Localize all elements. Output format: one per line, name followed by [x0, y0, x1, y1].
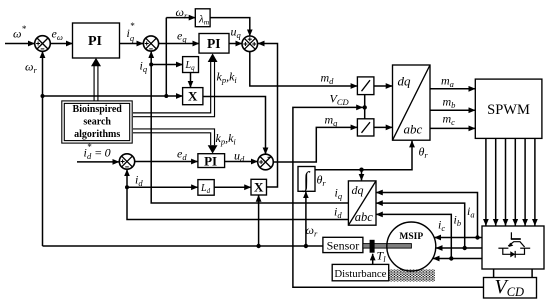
svg-text:eω: eω: [52, 27, 63, 43]
svg-text:ωr: ωr: [176, 5, 188, 21]
svg-text:mc: mc: [443, 112, 456, 128]
svg-text:ma: ma: [441, 74, 454, 90]
svg-text:∫: ∫: [301, 168, 310, 193]
svg-text:ed: ed: [177, 147, 187, 163]
svg-text:Sensor: Sensor: [327, 239, 360, 253]
svg-text:ic: ic: [438, 218, 445, 234]
svg-text:Tl: Tl: [377, 249, 387, 265]
svg-text:Bioinspired: Bioinspired: [73, 104, 123, 115]
svg-text:Disturbance: Disturbance: [334, 268, 386, 280]
svg-text:dq: dq: [398, 74, 412, 89]
svg-text:PI: PI: [88, 34, 102, 49]
svg-text:mq: mq: [325, 113, 339, 129]
svg-text:mb: mb: [443, 95, 456, 111]
svg-text:i*q: i*q: [127, 21, 135, 43]
svg-text:PI: PI: [204, 154, 217, 169]
svg-text:id: id: [135, 173, 143, 189]
svg-text:PI: PI: [207, 36, 221, 51]
svg-text:X: X: [254, 179, 264, 194]
svg-text:ωr: ωr: [25, 60, 37, 76]
svg-text:iq: iq: [335, 186, 343, 202]
svg-text:θr: θr: [419, 145, 429, 161]
svg-text:ia: ia: [467, 204, 475, 220]
svg-text:MSIP: MSIP: [399, 232, 423, 242]
svg-text:search: search: [83, 117, 111, 128]
svg-text:kp,ki: kp,ki: [217, 70, 238, 86]
svg-text:θr: θr: [317, 173, 327, 189]
svg-text:VCD: VCD: [330, 92, 350, 108]
svg-text:algorithms: algorithms: [74, 129, 120, 140]
svg-text:id: id: [334, 205, 342, 221]
svg-text:ud: ud: [234, 149, 245, 165]
svg-text:abc: abc: [404, 122, 423, 137]
svg-text:ib: ib: [454, 213, 462, 229]
svg-text:eq: eq: [177, 29, 187, 45]
svg-text:iq: iq: [140, 59, 148, 75]
svg-text:md: md: [321, 71, 335, 87]
svg-text:dq: dq: [352, 183, 364, 197]
svg-text:X: X: [188, 89, 198, 104]
svg-text:i*d = 0: i*d = 0: [84, 142, 111, 161]
svg-text:uq: uq: [231, 25, 242, 41]
svg-text:kp,ki: kp,ki: [216, 131, 237, 147]
svg-text:ωr: ωr: [306, 223, 318, 239]
svg-text:ω*: ω*: [13, 24, 26, 41]
svg-text:abc: abc: [355, 210, 374, 224]
svg-text:SPWM: SPWM: [487, 102, 530, 118]
